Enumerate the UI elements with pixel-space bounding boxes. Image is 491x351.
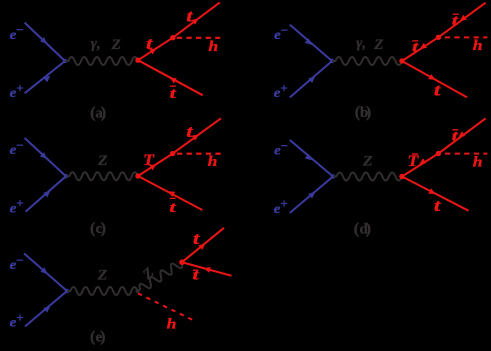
- svg-text:(b): (b): [355, 104, 372, 121]
- vertex right (a): [135, 58, 140, 63]
- svg-text:e+: e+: [10, 196, 24, 216]
- higgs emission vertex (b): [436, 35, 441, 40]
- vertex right (c): [135, 173, 140, 178]
- svg-text:e−: e−: [10, 138, 24, 158]
- antitop line tbar (e): [182, 262, 232, 276]
- arrow e- (e): [41, 267, 48, 274]
- svg-text:h: h: [208, 39, 218, 55]
- svg-text:(c): (c): [90, 220, 106, 237]
- top quark line t (e): [182, 228, 224, 262]
- top quark line t upper (c): [173, 118, 221, 153]
- electron line e- (e): [24, 253, 67, 291]
- vertex left (c): [64, 174, 68, 178]
- higgs emission vertex (c): [170, 151, 175, 156]
- higgs dashed line (b): [445, 36, 488, 38]
- higgs dashed line (c): [177, 153, 221, 155]
- arrow Tbar (d): [419, 158, 426, 164]
- antitop line tbar segment 1 (b): [402, 37, 438, 61]
- svg-text:(e): (e): [90, 329, 105, 346]
- svg-text:h: h: [167, 317, 177, 333]
- arrow tbar (a): [170, 78, 177, 84]
- positron line e+ (d): [290, 177, 333, 213]
- antitop line tbar (a): [138, 60, 203, 95]
- arrow t (e): [198, 243, 205, 250]
- svg-text:t: t: [412, 39, 419, 55]
- svg-text:Z: Z: [111, 37, 121, 53]
- positron line e+ (a): [25, 61, 65, 93]
- svg-text:e+: e+: [274, 196, 288, 216]
- electron line e- (d): [290, 140, 333, 177]
- ttbar vertex (e): [179, 259, 185, 265]
- arrow t seg1 (a): [149, 48, 156, 54]
- higgs dashed line (a): [177, 37, 220, 39]
- svg-text:e+: e+: [10, 80, 24, 100]
- electron line e- (c): [25, 138, 66, 176]
- vertex left (a): [63, 59, 67, 63]
- svg-text:Z: Z: [139, 265, 157, 284]
- arrow e- (a): [40, 37, 47, 44]
- arrow e+ (a): [43, 76, 50, 83]
- arrow tbar (c): [168, 191, 175, 197]
- photon/Z propagator (b): [332, 57, 402, 65]
- arrow T (c): [149, 164, 156, 170]
- electron line e- (b): [290, 25, 332, 61]
- svg-text:e−: e−: [10, 22, 24, 42]
- svg-text:(a): (a): [90, 105, 106, 122]
- svg-text:e−: e−: [10, 252, 24, 272]
- svg-text:t: t: [452, 128, 459, 144]
- vertex left (b): [330, 59, 334, 63]
- svg-text:Z: Z: [97, 153, 108, 169]
- antitop line tbar upper (d): [438, 118, 485, 153]
- svg-text:T: T: [143, 152, 154, 169]
- svg-text:h: h: [208, 154, 218, 170]
- svg-text:e+: e+: [274, 81, 288, 101]
- heavy antitop line Tbar (d): [402, 154, 438, 177]
- top quark line t (b): [402, 61, 467, 97]
- arrow e+ (e): [43, 306, 50, 313]
- higgs dashed line (e): [138, 293, 195, 320]
- top quark line t (d): [402, 177, 469, 211]
- positron line e+ (b): [290, 61, 332, 97]
- vertex left (e): [65, 289, 69, 293]
- svg-text:t: t: [434, 196, 442, 215]
- vertex right (b): [399, 58, 404, 63]
- arrow e- (b): [305, 38, 312, 45]
- arrow t (b): [428, 74, 435, 80]
- arrow tbar seg2 (b): [460, 15, 467, 21]
- arrow e+ (b): [308, 76, 315, 83]
- svg-text:t: t: [170, 86, 177, 102]
- antitop line tbar segment 2 (b): [438, 3, 485, 38]
- top quark line t segment 1 (a): [138, 38, 173, 61]
- vertex right (d): [399, 174, 404, 179]
- Z propagator (d): [333, 173, 402, 181]
- positron line e+ (e): [25, 291, 67, 326]
- arrow t (d): [428, 188, 435, 194]
- higgs dashed line (d): [445, 153, 487, 155]
- svg-text:e+: e+: [10, 310, 24, 330]
- svg-text:h: h: [473, 38, 483, 54]
- vertex left (d): [331, 174, 335, 178]
- electron line e- (a): [25, 23, 65, 61]
- photon/Z propagator (a): [65, 57, 138, 65]
- arrow e- (d): [305, 154, 312, 161]
- arrow e+ (d): [308, 192, 315, 199]
- arrow e+ (c): [43, 191, 50, 198]
- svg-text:T: T: [408, 153, 419, 170]
- top quark line t segment 2 (a): [173, 2, 220, 37]
- Z propagator 2 (e): [135, 259, 184, 295]
- arrow t upper (c): [192, 134, 199, 140]
- svg-text:γ,: γ,: [91, 36, 101, 52]
- Z propagator (c): [66, 172, 138, 180]
- heavy top line T (c): [138, 154, 173, 176]
- svg-text:Z: Z: [373, 37, 383, 53]
- Z propagator 1 (e): [67, 287, 138, 295]
- positron line e+ (c): [26, 176, 66, 211]
- svg-text:t: t: [452, 13, 459, 29]
- ZZh vertex (e): [135, 289, 139, 293]
- svg-text:Z: Z: [97, 268, 108, 284]
- arrow e- (c): [40, 152, 47, 159]
- arrow tbar seg1 (b): [420, 43, 427, 49]
- svg-text:t: t: [169, 200, 176, 216]
- higgs emission vertex (a): [170, 35, 175, 40]
- arrow tbar (e): [204, 267, 211, 273]
- arrow t seg2 (a): [192, 18, 199, 24]
- antitop line tbar (c): [138, 176, 202, 210]
- svg-text:e−: e−: [274, 22, 288, 42]
- svg-text:h: h: [473, 154, 483, 170]
- svg-text:γ,: γ,: [356, 35, 366, 51]
- higgs emission vertex (d): [436, 151, 441, 156]
- svg-text:e−: e−: [274, 138, 288, 158]
- arrow tbar upper (d): [458, 131, 465, 137]
- svg-text:(d): (d): [354, 220, 371, 237]
- svg-text:Z: Z: [362, 153, 373, 169]
